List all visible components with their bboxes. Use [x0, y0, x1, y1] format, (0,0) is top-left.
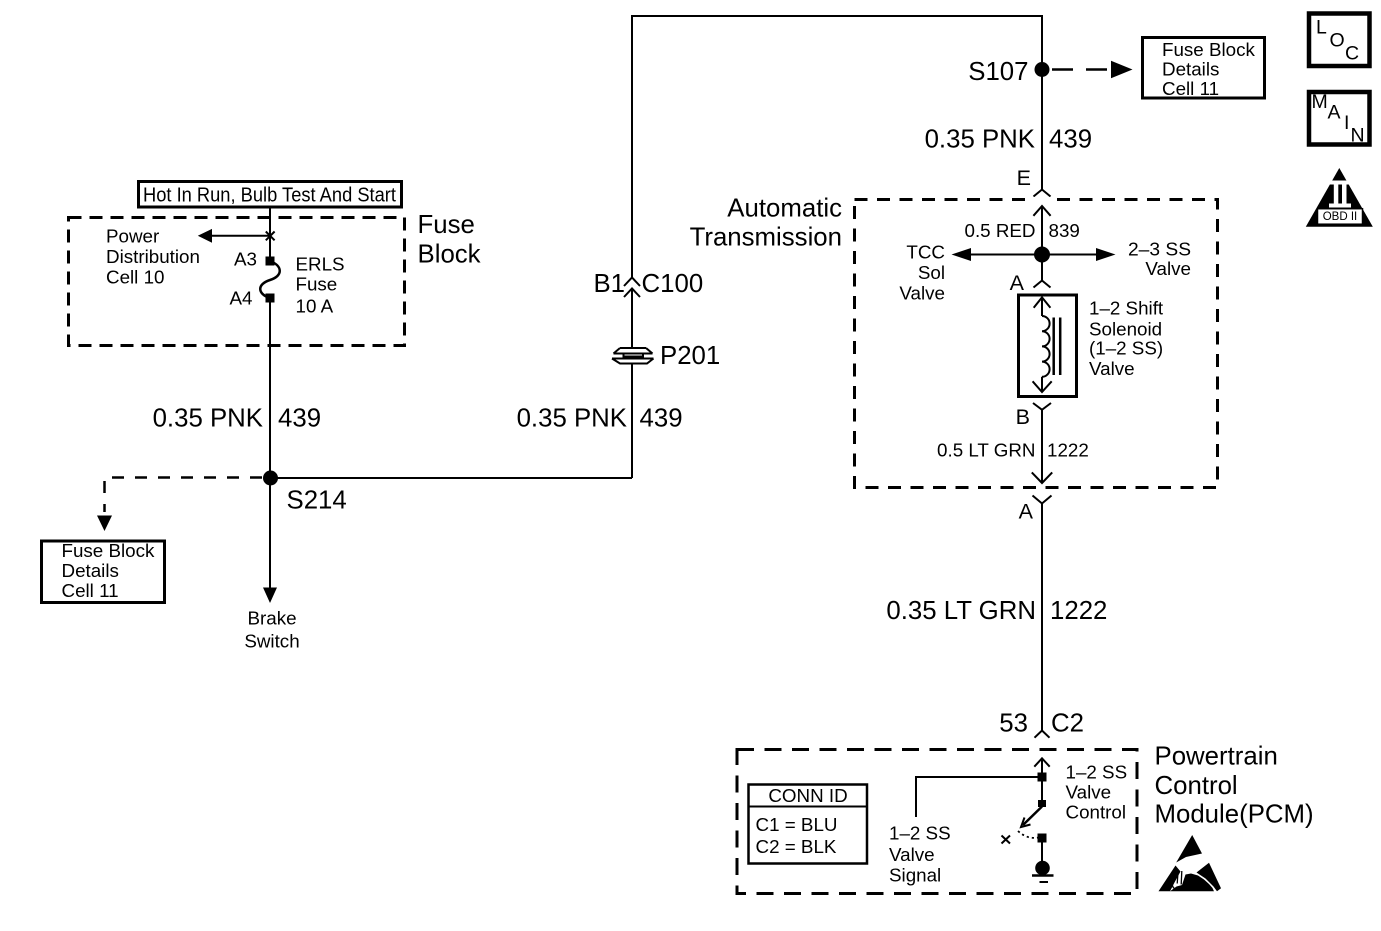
svg-text:C: C	[1345, 43, 1359, 65]
svg-text:Valve: Valve	[1089, 358, 1135, 379]
wire: arrow to 2-3 SS Valve	[1042, 254, 1098, 256]
label 1-2 SS Valve Signal	[889, 823, 951, 886]
wire: entry arrow up toward pin C2	[1034, 758, 1049, 766]
svg-text:Transmission: Transmission	[690, 224, 842, 252]
svg-text:0.35 PNK: 0.35 PNK	[925, 126, 1035, 154]
pin A3 terminal square	[266, 257, 275, 266]
svg-text:N: N	[1351, 125, 1365, 147]
svg-text:Fuse: Fuse	[418, 211, 475, 239]
svg-text:ERLS: ERLS	[296, 254, 345, 275]
wire label 0.35 LT GRN 1222	[886, 597, 1107, 625]
svg-text:Powertrain: Powertrain	[1155, 743, 1278, 771]
label Brake Switch	[244, 608, 299, 652]
svg-text:E: E	[1017, 166, 1031, 190]
pin A label and connector chevron	[1010, 271, 1051, 295]
svg-text:L: L	[1316, 17, 1327, 39]
switch: dotted travel arc	[1018, 831, 1039, 838]
wire: entry arrow up toward pin E	[1033, 206, 1050, 216]
svg-text:Automatic: Automatic	[727, 195, 842, 223]
svg-text:53: 53	[999, 710, 1028, 738]
OBD II symbol	[1306, 168, 1373, 227]
Automatic Transmission dashed box	[855, 200, 1218, 488]
node: X mark (open position)	[1002, 836, 1011, 844]
header box "Hot In Run, Bulb Test And Start"	[139, 182, 402, 208]
wire: to driver switch	[1041, 781, 1043, 801]
label Fuse Block	[418, 211, 481, 269]
wire: dashed arrow S107 to reference box	[1052, 68, 1112, 71]
label Powertrain Control Module(PCM)	[1155, 743, 1314, 829]
svg-text:CONN ID: CONN ID	[768, 785, 847, 806]
svg-text:Switch: Switch	[244, 631, 299, 652]
svg-text:S214: S214	[287, 487, 347, 515]
svg-text:Power: Power	[106, 226, 159, 247]
svg-text:A4: A4	[230, 288, 253, 309]
svg-text:Control: Control	[1066, 802, 1127, 823]
pin B label and connector chevron	[1016, 403, 1051, 429]
svg-text:Block: Block	[418, 241, 481, 269]
node: signal tap square	[1038, 773, 1047, 782]
fuse ERLS F1 (S-curve element)	[260, 261, 280, 298]
svg-text:A: A	[1019, 500, 1034, 524]
wire: junction down to solenoid pin A	[1041, 255, 1043, 281]
wire: from header box down through fuse	[269, 208, 271, 261]
svg-text:Distribution: Distribution	[106, 246, 200, 267]
svg-text:(1–2 SS): (1–2 SS)	[1089, 338, 1163, 359]
svg-text:P201: P201	[660, 342, 720, 370]
reference box Fuse Block Details Cell 11 (right)	[1143, 38, 1265, 100]
svg-text:Valve: Valve	[1145, 258, 1191, 279]
svg-text:B: B	[1016, 405, 1030, 429]
svg-text:A3: A3	[234, 249, 257, 270]
svg-text:0.35 LT GRN: 0.35 LT GRN	[886, 597, 1036, 625]
label 2-3 SS Valve	[1128, 239, 1191, 280]
label 1-2 SS Valve Control	[1066, 762, 1128, 823]
svg-text:B1: B1	[593, 270, 625, 298]
svg-text:S107: S107	[968, 58, 1028, 86]
svg-text:Sol: Sol	[918, 262, 945, 283]
svg-text:Details: Details	[1162, 59, 1219, 80]
svg-text:0.5 RED: 0.5 RED	[965, 220, 1036, 241]
wire: dashed reference branch from S214	[105, 478, 263, 513]
node: junction splice in transmission	[1034, 247, 1050, 263]
pin A4 terminal square	[266, 294, 275, 303]
wire: P201 down to S214 horizontal	[631, 364, 633, 479]
label 1-2 Shift Solenoid (1-2 SS) Valve	[1089, 298, 1164, 380]
svg-text:M: M	[1312, 91, 1328, 113]
wire: S214 down to Brake Switch	[269, 478, 271, 589]
wire: solenoid B down and out of box	[1041, 410, 1043, 483]
wire label 0.35 PNK 439 (right)	[925, 126, 1092, 154]
pin A (harness side) connector chevron below box	[1019, 496, 1052, 524]
svg-text:1–2 Shift: 1–2 Shift	[1089, 298, 1164, 319]
svg-text:Valve: Valve	[1066, 782, 1112, 803]
wire: top horizontal bus from left branch to S107 branch	[632, 16, 1042, 278]
node: X splice mark on wire	[266, 232, 275, 241]
svg-text:A: A	[1328, 102, 1341, 124]
wire: transmission to PCM	[1041, 504, 1043, 731]
connector C100 (B1) inline double chevron	[593, 270, 703, 298]
svg-text:2–3 SS: 2–3 SS	[1128, 239, 1191, 260]
switch: driver arm with arrowhead	[1023, 807, 1042, 826]
wire: fuse output down to S214	[269, 298, 271, 478]
label Automatic Transmission	[690, 195, 843, 252]
svg-text:Fuse Block: Fuse Block	[1162, 39, 1256, 60]
solenoid coil symbol	[1033, 297, 1061, 392]
svg-text:A: A	[1010, 271, 1025, 295]
wire: 1-2 SS Valve Signal tap	[916, 777, 1042, 817]
reference box Fuse Block Details Cell 11 (left)	[42, 540, 165, 603]
svg-text:TCC: TCC	[906, 242, 945, 263]
grommet P201	[612, 342, 720, 370]
wire label 0.5 RED 839	[965, 220, 1080, 241]
wire: S214 to right vertical	[270, 477, 632, 479]
node: switch top contact square	[1038, 800, 1046, 807]
dash gap at pin E	[1030, 197, 1054, 202]
svg-text:Fuse: Fuse	[296, 274, 338, 295]
wire label 0.35 PNK 439 (middle)	[517, 405, 683, 433]
svg-text:0.5 LT GRN: 0.5 LT GRN	[937, 440, 1035, 461]
wire: C100 to P201	[631, 289, 633, 349]
svg-text:Module(PCM): Module(PCM)	[1155, 801, 1314, 829]
wire: arrow to TCC Sol Valve	[968, 254, 1042, 256]
svg-text:439: 439	[640, 405, 683, 433]
svg-text:1222: 1222	[1050, 597, 1107, 625]
solenoid 1-2 Shift (1-2 SS) Valve box	[1019, 295, 1077, 397]
svg-text:1–2 SS: 1–2 SS	[889, 823, 951, 844]
value label ERLS Fuse 10 A	[296, 254, 345, 317]
svg-text:Solenoid: Solenoid	[1089, 319, 1162, 340]
PCM dashed box	[737, 750, 1137, 894]
svg-text:I: I	[1344, 112, 1349, 134]
CONN ID table	[749, 785, 868, 864]
svg-text:Brake: Brake	[247, 608, 296, 629]
svg-text:Cell 11: Cell 11	[62, 580, 119, 601]
svg-text:10 A: 10 A	[296, 296, 334, 317]
svg-text:C2: C2	[1051, 710, 1084, 738]
svg-text:Valve: Valve	[889, 844, 935, 865]
svg-text:Signal: Signal	[889, 865, 941, 886]
node: switch bottom contact square	[1038, 834, 1047, 843]
svg-text:C1 = BLU: C1 = BLU	[756, 814, 838, 835]
svg-text:839: 839	[1049, 220, 1080, 241]
svg-text:Hot In Run, Bulb Test And Star: Hot In Run, Bulb Test And Start	[143, 185, 396, 207]
svg-text:0.35 PNK: 0.35 PNK	[153, 405, 263, 433]
wire: branch arrow to Power Distribution	[210, 235, 270, 237]
label TCC Sol Valve	[899, 242, 945, 304]
pin E label and connector chevron	[1017, 166, 1051, 197]
svg-text:439: 439	[1049, 126, 1092, 154]
svg-text:C2 = BLK: C2 = BLK	[756, 836, 837, 857]
fuse block dashed box	[69, 218, 405, 346]
wire label 0.35 PNK 439 (left)	[153, 405, 321, 433]
svg-text:439: 439	[278, 405, 321, 433]
label Power Distribution Cell 10	[106, 226, 200, 288]
svg-text:Details: Details	[62, 560, 119, 581]
wire label 0.5 LT GRN 1222	[937, 440, 1089, 461]
svg-text:0.35 PNK: 0.35 PNK	[517, 405, 627, 433]
svg-text:Cell 11: Cell 11	[1162, 78, 1219, 99]
svg-text:Cell 10: Cell 10	[106, 267, 164, 288]
svg-text:Fuse Block: Fuse Block	[62, 540, 156, 561]
svg-text:Control: Control	[1155, 772, 1238, 800]
splice S107	[1035, 62, 1050, 77]
svg-text:OBD II: OBD II	[1323, 211, 1358, 223]
svg-text:1–2 SS: 1–2 SS	[1066, 762, 1128, 783]
pin 53 C2 labels and connector chevron	[999, 710, 1084, 738]
svg-text:C100: C100	[642, 270, 704, 298]
svg-text:1222: 1222	[1047, 440, 1089, 461]
ground	[1032, 861, 1054, 882]
LOC reference box	[1309, 14, 1370, 67]
wire: switch to ground	[1041, 842, 1043, 862]
splice S214	[263, 471, 278, 486]
svg-text:O: O	[1330, 30, 1345, 52]
svg-text:Valve: Valve	[899, 283, 945, 304]
ESD symbol	[1159, 835, 1222, 891]
MAIN reference box	[1309, 91, 1370, 147]
